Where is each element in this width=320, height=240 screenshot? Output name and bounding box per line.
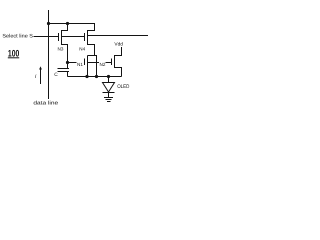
wire common source rail bbox=[68, 76, 122, 78]
svg-text:N1: N1 bbox=[77, 62, 83, 67]
OLED cathode bar bbox=[103, 92, 115, 94]
transistor N1 gate bar bbox=[84, 59, 86, 66]
current arrow i shaft bbox=[40, 69, 42, 84]
wire select line S middle bbox=[62, 36, 85, 38]
transistor N4 gate bar bbox=[84, 33, 86, 41]
ground bar 2 bbox=[106, 99, 112, 101]
current arrow i head bbox=[39, 66, 42, 69]
svg-text:i: i bbox=[35, 74, 37, 80]
OLED diode triangle bbox=[103, 83, 115, 93]
wire capacitor top connector bbox=[67, 63, 69, 69]
junction dot N4 lead on rail bbox=[95, 75, 98, 78]
wire top data node bbox=[49, 23, 96, 25]
ground bar 1 bbox=[104, 97, 113, 99]
junction dot N1 source on rail bbox=[85, 75, 88, 78]
transistor N2 gate bar bbox=[111, 59, 113, 66]
underline of 100 bbox=[8, 57, 19, 58]
wire node N to N2 gate right part bbox=[106, 62, 112, 64]
junction dot node N bbox=[66, 61, 69, 64]
svg-text:OLED: OLED bbox=[117, 84, 129, 90]
capacitor C top plate bbox=[58, 68, 70, 70]
ground bar 3 bbox=[107, 101, 111, 103]
wire OLED cathode to ground bbox=[108, 93, 110, 98]
svg-text:Vdd: Vdd bbox=[114, 41, 123, 47]
svg-text:N3: N3 bbox=[58, 46, 64, 51]
transistor N1 channel and source lead bbox=[87, 56, 89, 77]
svg-text:N4: N4 bbox=[79, 46, 85, 51]
wire select line S left bbox=[34, 36, 59, 38]
wire select line S right bbox=[88, 35, 148, 37]
capacitor C bottom plate bbox=[58, 71, 70, 73]
wire N4 source / N1 drain jog bbox=[88, 56, 97, 77]
data line bbox=[48, 10, 50, 99]
wire N1 channel to N2 gate bbox=[88, 62, 100, 64]
transistor N3 channel with drain and source leads bbox=[62, 24, 68, 63]
wire node N to N1 gate bbox=[68, 62, 77, 64]
transistor N3 gate bar bbox=[58, 33, 60, 41]
transistor N4 channel with drain and source leads bbox=[88, 24, 95, 56]
wire capacitor bottom connector bbox=[67, 72, 69, 77]
svg-text:N2: N2 bbox=[100, 62, 106, 67]
transistor N2 channel with drain and source leads bbox=[115, 47, 122, 77]
wire OLED anode bbox=[108, 77, 110, 83]
junction dot N3 drain on top wire bbox=[66, 22, 69, 25]
junction dot OLED anode on rail bbox=[107, 75, 110, 78]
junction dot data line / top wire bbox=[47, 22, 50, 25]
svg-text:C: C bbox=[54, 72, 58, 78]
svg-text:Select line S: Select line S bbox=[2, 33, 33, 39]
svg-text:data line: data line bbox=[33, 100, 58, 106]
